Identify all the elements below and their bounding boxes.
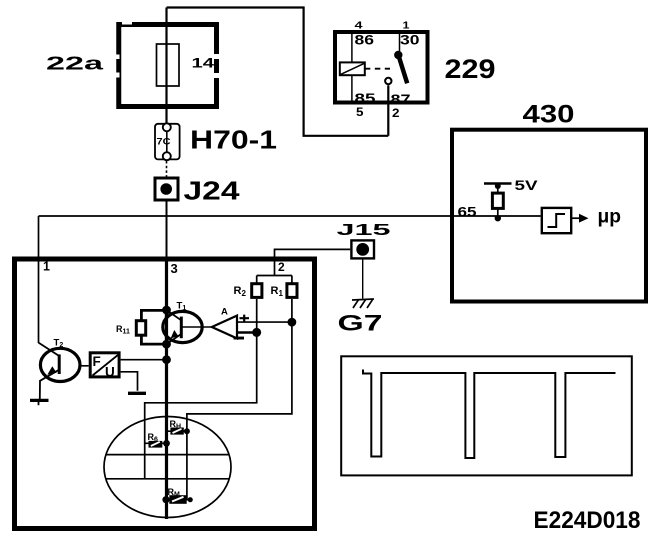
fuse element [157, 44, 180, 86]
svg-text:65: 65 [458, 204, 477, 220]
svg-text:14: 14 [192, 55, 215, 71]
sensor circle (sender unit) [104, 417, 231, 518]
wire R2 column down-left to Rs [145, 299, 257, 479]
node Rm right junction [188, 497, 193, 502]
waveform box [341, 356, 632, 475]
connector H70-1 [155, 124, 180, 160]
node Rm left junction [162, 496, 169, 503]
svg-text:3: 3 [171, 261, 178, 276]
wire from fuse top to relay contact 87 (top run) [167, 8, 389, 136]
transistor T1 [163, 311, 202, 342]
svg-text:87: 87 [391, 92, 411, 107]
node Rs right junction [163, 440, 170, 447]
ground under F/U [128, 392, 146, 395]
fuse 22a box (dashed) [119, 25, 217, 107]
transistor T2 [40, 348, 80, 381]
node op-amp minus junction [252, 328, 261, 337]
node T1 collector junction [162, 306, 171, 315]
svg-text:85: 85 [355, 91, 377, 106]
svg-text:J24: J24 [184, 176, 241, 206]
relay 229 box [335, 32, 428, 103]
node main vertical inside big box [165, 259, 168, 519]
node F/U output junction [162, 355, 171, 364]
wire T1 base to op-amp output [181, 326, 212, 328]
schmitt trigger box [542, 208, 571, 233]
wire op-amp minus input to R2 [237, 331, 257, 334]
wire T2 base to F/U [61, 365, 89, 367]
svg-text:5V: 5V [515, 177, 539, 193]
svg-text:E224D018: E224D018 [534, 507, 641, 534]
F/U converter box [90, 353, 119, 377]
waveform trace [363, 370, 616, 459]
svg-text:A: A [221, 307, 228, 318]
node Rh right junction [184, 428, 190, 434]
svg-text:86: 86 [355, 33, 375, 48]
resistor Rh in sensor [167, 430, 187, 432]
wire long horizontal to 430 pin 65 [39, 215, 541, 217]
wire dashed between H70-1 and J24 [166, 161, 168, 177]
svg-text:F: F [93, 354, 101, 369]
wire J15 to ground G7 [362, 260, 364, 299]
connector J15 [351, 240, 374, 258]
arrow to microprocessor [571, 217, 579, 219]
node 65 junction [495, 215, 501, 221]
resistor R2 [252, 284, 262, 298]
node T1 emitter junction [162, 340, 171, 349]
svg-text:430: 430 [523, 101, 575, 129]
wire R11 parallel loop [141, 310, 166, 344]
svg-text:30: 30 [400, 33, 420, 48]
wire big box pin 1 [38, 216, 40, 343]
svg-text:1: 1 [403, 20, 410, 32]
resistor R11 [136, 321, 145, 336]
wire R1 column down-left to Rh/Rm [187, 299, 292, 500]
svg-text:2: 2 [392, 106, 400, 120]
svg-text:229: 229 [445, 54, 496, 84]
resistor Rm in sensor [163, 499, 191, 501]
relay contact 87 [385, 78, 391, 84]
wire main vertical through fuse, H70-1 [165, 8, 167, 161]
svg-text:J15: J15 [337, 222, 392, 239]
op-amp A [212, 316, 237, 339]
wire F/U lower output to ground [121, 372, 138, 391]
svg-text:μp: μp [598, 206, 622, 227]
wire F/U output to main node [121, 359, 167, 361]
svg-text:U: U [105, 365, 115, 380]
pull-up resistor [492, 193, 503, 208]
svg-text:1: 1 [43, 260, 50, 274]
ECU 430 box [452, 130, 646, 302]
svg-text:2: 2 [278, 260, 285, 274]
svg-text:G7: G7 [338, 311, 383, 336]
wire J15 to big box pin 2 [275, 249, 351, 276]
relay coil [351, 32, 353, 103]
svg-text:7C: 7C [157, 137, 171, 148]
5V supply rail [484, 182, 512, 185]
resistor R1 [287, 284, 297, 298]
wire 5V to pull-up resistor [497, 184, 499, 194]
svg-text:4: 4 [355, 20, 363, 32]
node op-amp plus junction [288, 318, 297, 327]
relay dashed link [365, 68, 390, 70]
resistor Rs in sensor [145, 442, 167, 444]
big component box border [15, 259, 315, 529]
connector J24 [155, 178, 178, 200]
node 5V junction [495, 183, 501, 189]
svg-text:22a: 22a [46, 54, 105, 74]
svg-text:H70-1: H70-1 [190, 125, 277, 155]
ground G7 symbol [352, 299, 374, 300]
wire J24 to big box pin 3 [166, 202, 168, 260]
svg-text:5: 5 [356, 105, 364, 119]
relay switch lever [399, 32, 401, 51]
ground under T2 [30, 399, 49, 402]
wire op-amp plus input to R1 [237, 321, 292, 323]
wire pin 2 tee to R2 and R1 tops [257, 276, 292, 284]
